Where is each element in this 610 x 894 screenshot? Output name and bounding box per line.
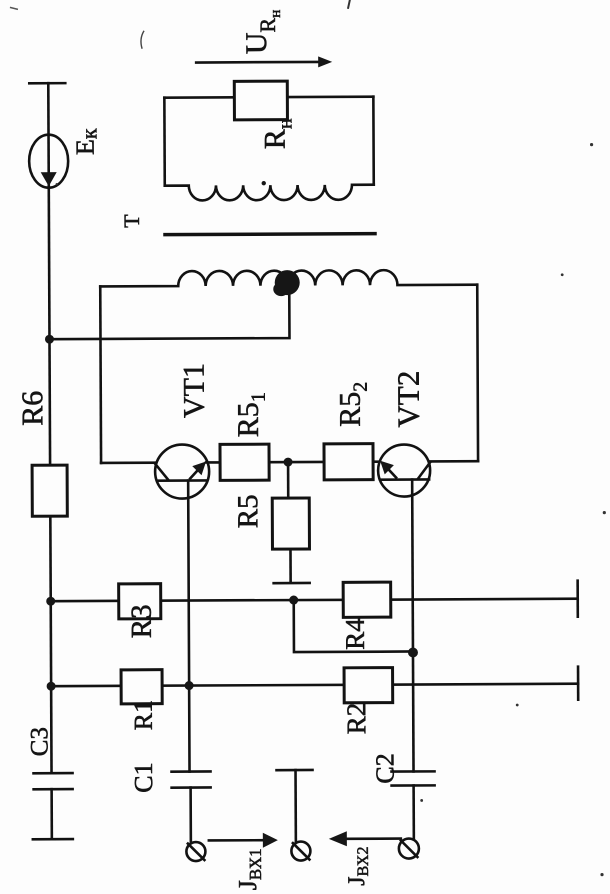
svg-text:R51: R51 [232, 392, 270, 437]
svg-text:URн: URн [240, 10, 284, 55]
svg-text:С2: С2 [370, 753, 399, 783]
svg-text:Т: Т [119, 214, 144, 228]
svg-text:R1: R1 [129, 700, 158, 730]
svg-text:R4: R4 [340, 618, 370, 650]
svg-text:JВХ1: JВХ1 [233, 848, 265, 890]
svg-text:VT2: VT2 [391, 371, 426, 428]
svg-text:R2: R2 [341, 703, 371, 735]
svg-text:С3: С3 [26, 727, 53, 756]
svg-text:С1: С1 [129, 762, 158, 792]
svg-text:VT1: VT1 [178, 363, 211, 418]
svg-text:JВХ2: JВХ2 [344, 847, 372, 886]
svg-text:R6: R6 [16, 391, 49, 426]
svg-text:R52: R52 [334, 382, 372, 427]
svg-text:R3: R3 [126, 604, 158, 638]
svg-text:R5: R5 [232, 494, 264, 528]
svg-text:Ек: Ек [70, 128, 101, 155]
svg-text:Rн: Rн [258, 118, 296, 149]
